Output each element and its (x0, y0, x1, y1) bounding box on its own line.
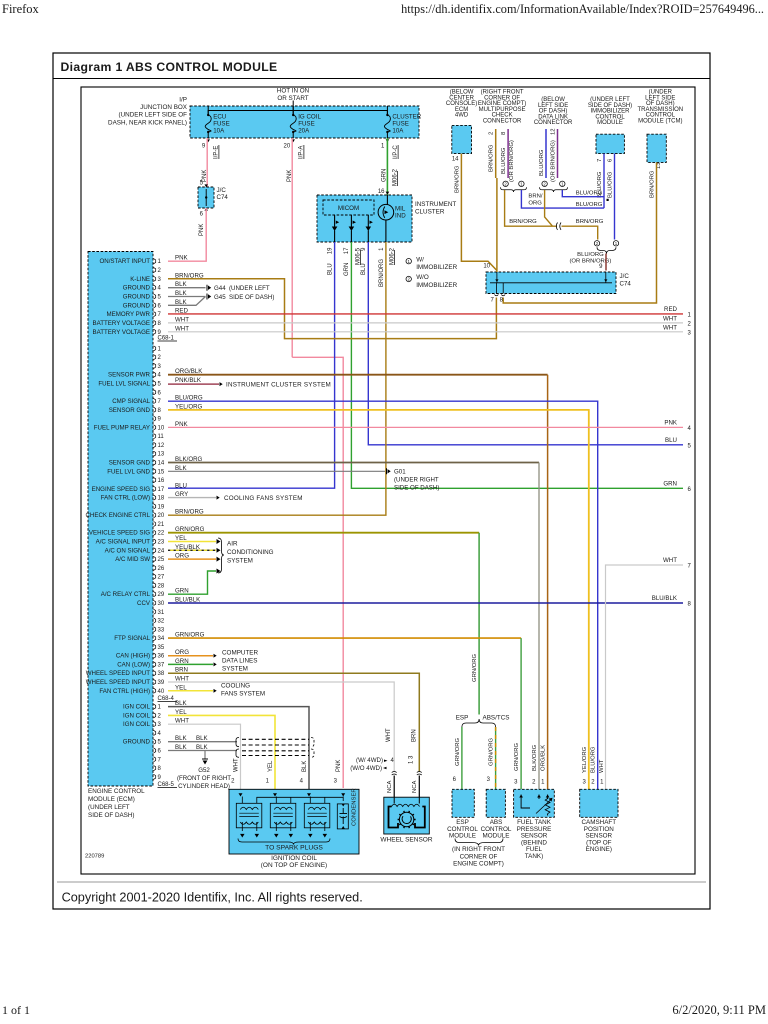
wire: check connector BRN/ORG pin2 continuation into J/C pin 10 (496, 178, 498, 272)
node: ECM connector C68-1 pin 23 A/C SIGNAL INPUT (96, 535, 188, 546)
svg-text:IGN COIL: IGN COIL (123, 704, 151, 711)
wire: YEL/BLK A/C ON SIGNAL pin24 (168, 549, 216, 551)
wire: PNK/BLK FUEL LVL SIGNAL pin5 arrow to instrument cluster system (168, 383, 219, 385)
transformer ignition coil unit 1 (236, 803, 261, 828)
svg-text:GROUND: GROUND (123, 285, 151, 292)
svg-text:39: 39 (158, 680, 165, 686)
svg-text:15: 15 (158, 469, 165, 475)
svg-text:MODULE: MODULE (597, 120, 623, 126)
svg-text:WHT: WHT (599, 759, 605, 773)
node: ECM pin 8 BATTERY VOLTAGE (93, 316, 190, 327)
wire: GRN CAN LOW pin37 arrow to computer data lines (168, 663, 213, 665)
svg-text:BRN/ORG: BRN/ORG (649, 170, 655, 198)
node: ECM connector C68-1 pin 28 (154, 583, 165, 590)
svg-text:35: 35 (158, 645, 165, 651)
fuse ECU 10A (205, 106, 230, 138)
svg-text:CYLINDER HEAD): CYLINDER HEAD) (178, 783, 230, 790)
svg-text:20: 20 (284, 144, 291, 150)
svg-text:IND: IND (395, 213, 406, 220)
node: air conditioning system bracket + label (218, 538, 224, 573)
svg-text:IG COIL: IG COIL (298, 114, 321, 121)
instrument cluster box (317, 195, 412, 242)
node: ECM connector C68-1 pin 25 A/C MID SW (115, 553, 189, 564)
node: ECM connector C68-1 pin 24 A/C ON SIGNAL (105, 544, 201, 555)
svg-text:A/C RELAY CTRL: A/C RELAY CTRL (101, 591, 151, 598)
svg-text:FUEL LVL SIGNAL: FUEL LVL SIGNAL (98, 380, 150, 387)
ignition coil assembly box (229, 789, 359, 854)
svg-text:SENSOR PWR: SENSOR PWR (108, 372, 151, 379)
svg-text:10A: 10A (213, 128, 225, 135)
svg-text:24: 24 (158, 548, 165, 554)
svg-text:BLK: BLK (196, 735, 209, 742)
wire: BLU/ORG (OR BRN/ORG) check connector pin8 down (507, 129, 509, 178)
wire: PNK from J/C C74 down to ECM pin 1 (168, 208, 206, 261)
node: ECM pin 7 MEMORY PWR (107, 308, 189, 319)
wire: BRN/ORG cluster pin1 to ECM CHECK ENGINE CTRL pin20 (168, 242, 386, 515)
node: ECM connector C68-1 pin 13 (154, 451, 165, 458)
svg-text:WHT: WHT (663, 324, 677, 331)
svg-text:INSTRUMENT CLUSTER SYSTEM: INSTRUMENT CLUSTER SYSTEM (226, 381, 331, 388)
svg-text:IMMOBILIZER: IMMOBILIZER (416, 282, 457, 289)
svg-text:I/P: I/P (179, 97, 187, 104)
wire: GRN/ORG branch to ABS control module pin3 (495, 727, 497, 789)
svg-text:33: 33 (158, 627, 165, 633)
svg-text:CCV: CCV (137, 600, 151, 607)
wire: BLU cluster pin19 to ECM ENGINE SPEED SIG pin17 (168, 242, 335, 488)
svg-text:16: 16 (378, 189, 385, 195)
svg-text:JUNCTION BOX: JUNCTION BOX (140, 104, 188, 111)
svg-text:ENGINE): ENGINE) (586, 846, 612, 853)
svg-text:14: 14 (158, 461, 165, 467)
svg-text:CLUSTER: CLUSTER (392, 114, 421, 121)
svg-text:MODULE (TCM): MODULE (TCM) (638, 118, 682, 124)
svg-text:Copyright 2001-2020 Identifix,: Copyright 2001-2020 Identifix, Inc. All … (62, 891, 363, 905)
wire: YEL A/C SIGNAL INPUT pin23 (168, 541, 216, 543)
svg-text:BLU/BLK: BLU/BLK (652, 595, 678, 602)
wire: PNK FUEL PUMP RELAY pin10 to right edge pin 4 (168, 426, 683, 428)
node: ECM connector C68-1 pin 33 (154, 627, 165, 634)
node: ECM connector C68-1 pin 1 (154, 346, 162, 353)
transmission control module TCM box (647, 134, 666, 162)
svg-text:TANK): TANK) (525, 853, 543, 860)
svg-text:J/C: J/C (620, 273, 630, 280)
node: ECM connector C68-4 pin 3 IGN COIL (123, 718, 189, 729)
node: ESP/ABS location bracket (455, 839, 503, 846)
svg-text:(OR BRN/ORG): (OR BRN/ORG) (569, 259, 611, 265)
svg-text:SIDE OF DASH): SIDE OF DASH) (394, 485, 439, 492)
svg-text:COOLING: COOLING (221, 683, 250, 690)
wire: (OR BRN/ORG) data link connector pin12 down (557, 129, 559, 178)
svg-text:WHT: WHT (663, 315, 677, 322)
svg-text:ENGINE COMPT): ENGINE COMPT) (453, 861, 504, 868)
wire: PNK from IG COIL fuse to ignition coil condenser (291, 138, 293, 357)
svg-text:A/C SIGNAL INPUT: A/C SIGNAL INPUT (96, 539, 151, 546)
node: ECM pin 2 (154, 267, 162, 274)
svg-text:BRN/ORG: BRN/ORG (576, 219, 604, 225)
wire: YEL FAN CTRL HIGH pin40 arrow to cooling fans system (168, 690, 213, 692)
svg-text:ENGINE SPEED SIG: ENGINE SPEED SIG (92, 486, 151, 493)
node: immobilizer legend (406, 259, 411, 264)
fuse IG COIL 20A (290, 106, 321, 138)
svg-text:HOT IN ON: HOT IN ON (277, 88, 310, 95)
wire: BRN/ORG K-LINE from ECM pin3 to J/C C74 pin 7 (168, 279, 496, 339)
node: ECM connector C68-1 pin 29 A/C RELAY CTRL (101, 588, 189, 599)
svg-text:GRN/ORG: GRN/ORG (514, 742, 520, 771)
svg-text:BLU/ORG: BLU/ORG (576, 202, 603, 208)
svg-text:ORG: ORG (528, 200, 542, 206)
node: ECM connector C68-1 pin 4 SENSOR PWR (108, 368, 203, 379)
svg-text:G01: G01 (394, 469, 406, 476)
wire: GRN A/C RELAY CTRL pin29 (168, 571, 216, 594)
svg-text:BRN/ORG: BRN/ORG (175, 509, 204, 516)
node: ECM connector C68-1 pin 36 CAN (HIGH) (116, 649, 189, 660)
node: ECM connector C68-1 pin 11 (154, 434, 165, 441)
wire: shield dashed bundle to ignition coils (242, 738, 309, 740)
node: ECM connector C68-1 pin 30 CCV (137, 596, 201, 607)
svg-text:CAN (HIGH): CAN (HIGH) (116, 653, 150, 660)
svg-text:CLUSTER: CLUSTER (415, 209, 445, 216)
node: ECM connector C68-1 pin 5 FUEL LVL SIGNAL (98, 377, 201, 388)
wire: PNK from ECU fuse down to J/C C74 (206, 138, 208, 187)
wire: BLU/ORG tap to check connector option 1 (521, 190, 604, 208)
node: ECM connector C68-1 pin 16 (154, 477, 165, 484)
svg-text:PNK: PNK (175, 255, 189, 262)
svg-text:BLU/ORG: BLU/ORG (576, 191, 603, 197)
svg-text:VEHICLE SPEED SIG: VEHICLE SPEED SIG (89, 530, 150, 537)
wire: BLU cluster pin9 to right edge pin 5 (368, 242, 683, 445)
svg-text:23: 23 (158, 540, 165, 546)
svg-text:AIR: AIR (227, 541, 238, 548)
svg-text:(UNDER LEFT SIDE OF: (UNDER LEFT SIDE OF (119, 112, 188, 119)
svg-text:27: 27 (158, 575, 165, 581)
svg-text:CAN (LOW): CAN (LOW) (117, 661, 150, 668)
wire: NCA black leads into wheel sensor after splice (392, 772, 397, 776)
svg-text:4WD: 4WD (455, 113, 469, 119)
node: ECM connector C68-1 pin 20 CHECK ENGINE CTRL (86, 509, 204, 520)
svg-text:17: 17 (158, 487, 165, 493)
svg-text:BLU: BLU (175, 482, 187, 489)
svg-text:17: 17 (344, 247, 350, 254)
svg-text:MICOM: MICOM (338, 205, 359, 212)
svg-text:FUSE: FUSE (213, 121, 230, 128)
wire: WHT IGN COIL pin3 to ignition coil pin2 (168, 724, 241, 789)
svg-text:(ON TOP OF ENGINE): (ON TOP OF ENGINE) (261, 862, 327, 869)
svg-text:IGN COIL: IGN COIL (123, 721, 151, 728)
node: fuse ECU output pin 9 / connector I/P-E (202, 139, 220, 182)
svg-text:GRN/ORG: GRN/ORG (455, 737, 461, 766)
svg-text:19: 19 (328, 247, 334, 254)
transformer ignition coil unit 2 (270, 803, 296, 828)
svg-text:BRN/ORG: BRN/ORG (379, 259, 385, 287)
svg-text:(W/O 4WD): (W/O 4WD) (350, 765, 382, 772)
svg-text:32: 32 (158, 619, 165, 625)
svg-text:36: 36 (158, 654, 165, 660)
connector ECM 4WD box (452, 125, 472, 153)
wire: BLU/BLK CCV pin30 to right edge pin 8 (168, 602, 683, 604)
wire: WHT BATTERY VOLTAGE from ECM pin8 to right edge pin 2 (168, 322, 683, 324)
fuse CLUSTER 10A (384, 106, 421, 138)
svg-text:BRN: BRN (412, 729, 418, 742)
svg-text:DASH, NEAR KICK PANEL): DASH, NEAR KICK PANEL) (108, 119, 187, 126)
wire: BRN/ORG merged immobilizer path (505, 190, 557, 226)
svg-text:WHT: WHT (663, 557, 677, 564)
svg-text:SYSTEM: SYSTEM (222, 666, 248, 673)
svg-text:https://dh.identifix.com/Infor: https://dh.identifix.com/InformationAvai… (401, 2, 764, 16)
wire: WHT from camshaft position sensor pin1 to right edge pin 7 (606, 565, 684, 789)
svg-text:GROUND: GROUND (123, 293, 151, 300)
svg-text:GRN: GRN (344, 263, 350, 276)
node: data link immobilizer option circles (542, 181, 547, 186)
node: ECM pin 6 GROUND (123, 299, 188, 310)
svg-text:GROUND: GROUND (123, 302, 151, 309)
camshaft position sensor box (580, 789, 618, 817)
ground G44 (168, 287, 206, 289)
svg-text:IGNITION COIL: IGNITION COIL (271, 855, 317, 862)
svg-text:GRN/ORG: GRN/ORG (488, 737, 494, 766)
node: ECM connector C68-1 pin 17 ENGINE SPEED SIG (92, 482, 187, 493)
node: ECM connector C68-1 pin 37 CAN (LOW) (117, 658, 188, 669)
node: ECM connector C68-1 pin 31 (154, 609, 165, 616)
wire: ORG A/C MID SW pin25 (168, 558, 216, 560)
svg-text:(FRONT OF RIGHT: (FRONT OF RIGHT (177, 775, 231, 782)
node: ECM connector C68-1 pin 22 VEHICLE SPEED SIG (89, 526, 205, 537)
svg-text:WHEEL SPEED INPUT: WHEEL SPEED INPUT (86, 679, 151, 686)
svg-text:SENSOR GND: SENSOR GND (109, 407, 151, 414)
svg-text:BRN/ORG: BRN/ORG (454, 165, 460, 193)
svg-text:BRN/ORG: BRN/ORG (509, 219, 537, 225)
svg-text:C68-1: C68-1 (158, 336, 175, 342)
svg-text:C68-4: C68-4 (158, 696, 175, 702)
svg-text:FUEL PUMP RELAY: FUEL PUMP RELAY (94, 424, 150, 431)
immobilizer control module box (596, 134, 624, 153)
wire: BLK pin6 with shield bundle and ground tap G52 (168, 750, 237, 752)
svg-text:SIDE OF DASH): SIDE OF DASH) (88, 812, 135, 819)
svg-text:10: 10 (483, 264, 490, 270)
node: ECM pin 3 K-LINE (130, 272, 204, 283)
wire: BRN WHEEL SPEED INPUT pin38 to wheel sensor (168, 673, 419, 771)
node: ECM connector C68-1 pin 3 (154, 363, 162, 370)
svg-text:20: 20 (158, 513, 165, 519)
svg-text:BLU/ORG: BLU/ORG (501, 147, 507, 174)
node: ECM connector C68-1 pin 32 (154, 618, 165, 625)
svg-text:A/C ON SIGNAL: A/C ON SIGNAL (105, 547, 151, 554)
node: ECM connector C68-4 pin 5 GROUND (123, 735, 188, 746)
svg-text:(UNDER RIGHT: (UNDER RIGHT (394, 477, 439, 484)
node: ECM connector C68-4 pin 8 (154, 765, 162, 772)
svg-text:22: 22 (158, 531, 165, 537)
svg-text:FANS SYSTEM: FANS SYSTEM (221, 691, 265, 698)
svg-text:GRN/ORG: GRN/ORG (472, 653, 478, 682)
svg-text:G44: G44 (214, 285, 226, 292)
svg-text:BATTERY VOLTAGE: BATTERY VOLTAGE (93, 320, 150, 327)
node: ECM connector C68-1 pin 38 WHEEL SPEED INPUT (86, 667, 188, 678)
node: ECM connector C68-1 pin 12 (154, 442, 165, 449)
wire: WHT WHEEL SPEED INPUT pin39 to wheel sensor (168, 682, 394, 772)
node: ECM connector C68-1 pin 14 SENSOR GND (109, 456, 203, 467)
node: ECM connector C68-1 pin 26 (154, 565, 165, 572)
svg-text:(IN RIGHT FRONT: (IN RIGHT FRONT (452, 846, 505, 853)
svg-text:INSTRUMENT: INSTRUMENT (415, 201, 456, 208)
svg-text:BLU/ORG: BLU/ORG (608, 171, 614, 198)
node: ECM connector C68-4 pin 4 (154, 730, 162, 737)
svg-text:BLU: BLU (328, 263, 334, 275)
svg-text:11: 11 (158, 434, 165, 440)
svg-text:14: 14 (452, 157, 459, 163)
svg-text:MODULE (ECM): MODULE (ECM) (88, 796, 135, 803)
svg-text:FAN CTRL (LOW): FAN CTRL (LOW) (101, 495, 150, 502)
svg-text:WHEEL SENSOR: WHEEL SENSOR (380, 837, 432, 844)
svg-text:BLU/ORG: BLU/ORG (577, 252, 604, 258)
node: ECM pin 5 GROUND (123, 290, 188, 301)
wire: copyright separator line (57, 881, 706, 883)
svg-text:J/C: J/C (217, 187, 227, 194)
svg-text:CONNECTOR: CONNECTOR (534, 120, 573, 126)
svg-text:FUSE: FUSE (392, 121, 409, 128)
svg-text:18: 18 (158, 496, 165, 502)
svg-text:CMP SIGNAL: CMP SIGNAL (112, 398, 150, 405)
wire: BLU/ORG (OR BRN/ORG) down to J/C C74 pin 9 (605, 254, 607, 271)
svg-text:C74: C74 (620, 281, 632, 288)
node: ECM pin 1 ON/START INPUT (100, 255, 189, 266)
fuel tank pressure sensor box (514, 789, 555, 817)
wire: GRY FAN CTRL LOW pin18 arrow to cooling fans system (168, 497, 216, 499)
node: ECM connector C68-4 pin 1 IGN COIL (123, 700, 187, 711)
ground G45 (168, 296, 206, 298)
svg-text:PNK: PNK (664, 419, 678, 426)
transformer ignition coil unit 3 (304, 803, 330, 828)
wire: WHT BATTERY VOLTAGE from ECM pin9 to right edge pin 3 (168, 331, 683, 333)
wire: ORG CAN HIGH pin36 arrow to computer data lines (168, 655, 213, 657)
svg-text:(OR BRN/ORG): (OR BRN/ORG) (509, 140, 515, 182)
svg-text:7: 7 (597, 159, 603, 162)
wire: BLU/ORG data link connector down (545, 129, 547, 178)
svg-text:COMPUTER: COMPUTER (222, 650, 258, 657)
svg-text:ENGINE CONTROL: ENGINE CONTROL (88, 788, 145, 795)
svg-text:BLK: BLK (196, 744, 209, 751)
node: ECM connector C68-1 pin 6 (154, 390, 162, 397)
svg-text:20A: 20A (298, 128, 310, 135)
svg-text:G52: G52 (198, 767, 210, 774)
svg-text:38: 38 (158, 671, 165, 677)
lamp MIL IND indicator (378, 204, 394, 220)
svg-text:PNK/BLK: PNK/BLK (175, 377, 202, 384)
node: ECM connector C68-1 pin 40 FAN CTRL (HIGH) (99, 684, 187, 695)
svg-text:MODULE: MODULE (449, 833, 476, 840)
junction box I/P (fuse box) (190, 106, 419, 138)
svg-text:MODULE: MODULE (483, 833, 510, 840)
wire: title separator line (53, 78, 710, 80)
node: ECM connector C68-1 pin 35 (154, 644, 165, 651)
wire: GRN/ORG branch to ESP control module pin6 (461, 727, 463, 789)
svg-text:RED: RED (664, 306, 678, 313)
ground G01 / wire BLK FUEL LVL GND pin15 (168, 470, 385, 472)
svg-text:6/2/2020, 9:11 PM: 6/2/2020, 9:11 PM (672, 1003, 766, 1017)
svg-text:NCA: NCA (387, 780, 393, 793)
svg-text:DATA LINES: DATA LINES (222, 658, 257, 665)
node: check connector immobilizer option circles (503, 181, 508, 186)
wire: fuse feed bus from HOT IN ON (292, 101, 294, 115)
wire: YEL IGN COIL pin2 to ignition coil pin1 (168, 715, 275, 789)
svg-text:BLU: BLU (665, 437, 677, 444)
wire: RED MEMORY PWR from ECM pin7 to right edge pin 1 (168, 313, 683, 315)
svg-text:PNK: PNK (336, 760, 342, 772)
wire: GRN/ORG VEHICLE SPEED SIG pin22 to ESP and ABS/TCS (168, 532, 479, 534)
svg-text:FUEL LVL GND: FUEL LVL GND (107, 468, 150, 475)
node: ECM connector C68-4 pin 6 (154, 744, 188, 755)
wire: GRN from CLUSTER fuse to instrument cluster pin 16 (386, 138, 388, 195)
svg-text:21: 21 (158, 522, 165, 528)
svg-text:BLK: BLK (302, 761, 308, 772)
svg-text:34: 34 (158, 636, 165, 642)
svg-text:BRN/ORG: BRN/ORG (489, 144, 495, 172)
svg-text:G45: G45 (214, 294, 226, 301)
svg-text:Firefox: Firefox (2, 2, 40, 16)
svg-text:29: 29 (158, 592, 165, 598)
wire: BRN/ORG check connector pin2 down (495, 129, 497, 178)
svg-text:ON/START INPUT: ON/START INPUT (100, 258, 151, 265)
svg-text:10A: 10A (392, 128, 404, 135)
svg-text:SENSOR GND: SENSOR GND (109, 460, 151, 467)
svg-text:(UNDER LEFT: (UNDER LEFT (229, 285, 270, 292)
node: ECM connector C68-1 pin 27 (154, 574, 165, 581)
node: ECM connector C68-4 pin 9 (154, 774, 162, 781)
svg-text:BLK/ORG: BLK/ORG (532, 744, 538, 771)
node: ECM connector C68-1 pin 7 CMP SIGNAL (112, 395, 203, 406)
node: ECM connector C68-1 pin 15 FUEL LVL GND (107, 465, 187, 476)
svg-text:WHT: WHT (234, 758, 240, 772)
svg-text:(W/ 4WD): (W/ 4WD) (356, 757, 383, 764)
wire: YEL/ORG SENSOR GND pin8 to camshaft position sensor pin3 (168, 410, 589, 789)
svg-text:BATTERY VOLTAGE: BATTERY VOLTAGE (93, 329, 150, 336)
node: tone wheel gear (399, 812, 413, 826)
svg-text:PNK: PNK (199, 224, 205, 236)
diode D1 in cluster (332, 215, 339, 242)
svg-text:SIDE OF DASH): SIDE OF DASH) (229, 294, 274, 301)
svg-text:WHT: WHT (386, 728, 392, 742)
svg-text:(UNDER LEFT: (UNDER LEFT (88, 804, 130, 811)
wire: BLK GROUND pin5 with shield bundle (168, 741, 237, 743)
svg-text:SYSTEM: SYSTEM (227, 558, 253, 565)
svg-text:10: 10 (158, 425, 165, 431)
svg-text:16: 16 (158, 478, 165, 484)
node: TO SPARK PLUGS bracket + label (238, 839, 330, 845)
svg-text:(OR BRN/ORG): (OR BRN/ORG) (550, 140, 556, 182)
svg-text:FTP SIGNAL: FTP SIGNAL (114, 635, 150, 642)
svg-text:BRN/: BRN/ (528, 194, 542, 200)
node: ECM connector C68-4 pin 7 (154, 757, 162, 764)
ESP control module box (452, 789, 474, 817)
svg-text:19: 19 (158, 504, 165, 510)
svg-text:IGN COIL: IGN COIL (123, 712, 151, 719)
node: ECM connector C68-1 pin 21 (154, 521, 165, 528)
wire: BLU/ORG tap to data link option 1 (562, 190, 604, 197)
svg-text:CORNER OF: CORNER OF (460, 853, 498, 860)
svg-text:MIL: MIL (395, 206, 406, 213)
svg-text:13: 13 (158, 452, 165, 458)
svg-text:IMMOBILIZER: IMMOBILIZER (416, 264, 457, 271)
svg-text:GRN: GRN (381, 169, 387, 182)
svg-text:37: 37 (158, 662, 165, 668)
svg-text:BLU/ORG: BLU/ORG (539, 149, 545, 176)
svg-text:ESP: ESP (456, 715, 469, 722)
svg-text:BLU: BLU (361, 263, 367, 275)
node: ECM connector C68-1 pin 8 SENSOR GND (109, 403, 203, 414)
svg-text:40: 40 (158, 689, 165, 695)
svg-text:1 3: 1 3 (409, 755, 415, 764)
svg-text:1 of 1: 1 of 1 (2, 1003, 30, 1017)
node: ECM connector C68-1 pin 10 FUEL PUMP RELAY (94, 421, 189, 432)
svg-text:FAN CTRL (HIGH): FAN CTRL (HIGH) (99, 688, 150, 695)
